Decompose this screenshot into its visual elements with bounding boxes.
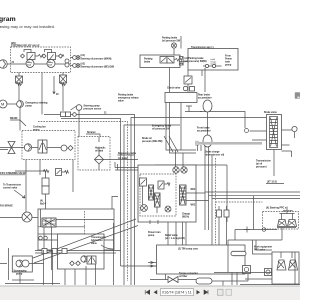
svg-text:R.H BRAKE: R.H BRAKE [0,205,13,208]
check valve circle on top [183,86,187,90]
pilot PPC dashed box [263,212,299,230]
plus mark component [244,227,250,233]
svg-text:Steering oil pressure (MAIN): Steering oil pressure (MAIN) [81,57,112,60]
svg-text:(xx = x.xx kg/cm2): (xx = x.xx kg/cm2) [165,238,185,240]
solenoid SV1 [173,167,179,173]
valve V12 below fan box [56,169,62,176]
relief valve pair right [217,210,222,217]
sensor S1 steering pump pressure sensor [76,105,82,111]
svg-text:Torque converter: Torque converter [179,272,198,275]
svg-text:Rear brake: Rear brake [198,95,211,97]
svg-text:valve: valve [118,101,124,103]
toolbar first page button [145,290,150,294]
wire steering line [0,217,42,219]
check CV6 diamond [68,146,73,151]
svg-text:pressure sensor: pressure sensor [84,109,102,111]
wire drop x63 [62,73,64,76]
wire transmission drop [188,70,202,76]
dashed drain vertical [84,211,86,234]
funnel symbol [185,106,202,112]
svg-text:Work equipment: Work equipment [254,246,272,249]
dark valve component [179,57,183,66]
spool stack left [149,185,154,200]
svg-text:W02: W02 [191,189,196,191]
solenoid SV2 [181,167,187,173]
svg-text:oil filter: oil filter [179,275,187,278]
wire diagonal to scavenging 1 [33,219,136,258]
toolbar background [0,287,300,300]
svg-text:From: From [225,56,231,58]
svg-text:(A) Parking brake: (A) Parking brake [185,57,205,60]
wire main pressure line [0,63,71,65]
wire diagonal to scavenging 2 [34,226,138,264]
svg-text:pressure (BELOW): pressure (BELOW) [142,141,163,143]
wire demand box step line [73,160,118,209]
svg-text:(oil pressure) SW(B): (oil pressure) SW(B) [185,61,207,63]
spring valve left [140,178,147,186]
wire extra bus left [61,119,157,267]
valve V3 pilot reducing [16,76,23,83]
svg-text:(A2): (A2) [81,62,86,65]
svg-text:Cooling fan: Cooling fan [33,127,46,129]
port circle A1 [65,59,69,63]
spool V9 dark stack [155,193,161,207]
test port T2 [73,64,77,68]
svg-text:accumulator: accumulator [198,97,212,100]
toolbar page field [161,289,194,296]
toolbar divider [0,286,300,287]
wire brake valve left ports [250,131,267,140]
svg-text:Emergency brake: Emergency brake [152,126,172,128]
svg-text:Strainer: Strainer [87,131,96,134]
wire to rear brake box [188,68,205,92]
pump P4 scavenging [16,260,23,267]
svg-text:(at oil: (at oil [256,163,262,166]
svg-text:train: train [225,61,231,64]
svg-text:P.P.C STEERING VALVE: P.P.C STEERING VALVE [0,172,26,175]
wire AC1 to AC2 [207,112,209,135]
svg-text:awing may or may not installed: awing may or may not installed. [0,24,55,29]
svg-text:(X) Steering PPC oil: (X) Steering PPC oil [266,207,288,210]
small gray icon right [295,92,300,99]
svg-text:(W1%): (W1%) [182,217,189,219]
capsule filter symbol [196,278,212,284]
orbitrol rotor dark cluster [42,218,56,227]
svg-text:accumulator: accumulator [197,130,211,133]
toolbar icon 2 [226,289,232,295]
wire right bus 3 [212,155,300,245]
svg-text:Brake oil: Brake oil [142,138,152,140]
wire arrows into TM case [148,261,157,267]
node circle on feed [245,129,249,133]
svg-text:Front brake: Front brake [197,127,210,130]
svg-text:pump: pump [26,105,33,107]
pump P1 steering pump [0,60,7,68]
relief valve RV2 [48,53,56,60]
manifold spools row [59,236,65,244]
wire bottom right runs [214,252,300,285]
check block square [243,266,251,274]
PPC valve element 1 [278,220,287,227]
valve X1 on line [168,277,178,283]
wire pair from rear brake box [166,103,196,154]
svg-text:pressure): pressure) [256,167,267,169]
scavenging pump block [12,256,32,272]
wire sensor drop [71,106,80,137]
svg-text:DRAIN: DRAIN [10,117,18,120]
svg-text:emergency release: emergency release [118,98,139,100]
transmission control valve main box [138,165,196,222]
wire continue [166,274,249,286]
solenoid SV3 [140,180,146,186]
svg-text:Parking brake: Parking brake [162,38,178,40]
steering relief valve assembly (dashed enclosure) [11,47,71,73]
thick hose line [196,142,262,145]
wire TM bottom line [150,279,196,281]
relief valve RV1 [27,53,35,60]
svg-text:Brake charge: Brake charge [205,152,220,154]
wire to test ports [71,58,75,66]
svg-text:Hydraulic: Hydraulic [95,148,106,150]
valve V10 [42,178,49,186]
pump P3 fan pump [24,144,31,151]
svg-text:Parking: Parking [144,59,153,61]
svg-text:Parking brake: Parking brake [118,95,134,97]
junction circle after filters [73,113,77,117]
pump P5 torque converter charge [81,256,87,262]
brake pedal [292,126,297,131]
svg-text:Check valve: Check valve [167,88,181,90]
underline PPC steering valve [0,174,25,176]
wire scavenging connections [0,248,60,285]
node small circle [262,228,266,232]
motor M emergency [0,100,7,108]
svg-text:pump: pump [16,274,23,276]
wire motor to pump [7,103,17,105]
wire from gauge B4 down [174,36,181,55]
toolbar prev button [154,290,158,294]
wire TM to work box [245,278,272,280]
svg-text:LH brake: LH brake [118,158,129,160]
accumulator AC1 [203,100,212,112]
lubrication valve box [58,234,105,269]
svg-text:Steering pump: Steering pump [84,105,101,108]
svg-text:oil pressure SW: oil pressure SW [152,129,170,131]
svg-text:(2) T/M sump case: (2) T/M sump case [178,249,199,251]
work equipment PPC box [272,252,299,284]
svg-text:Charge: Charge [182,214,191,216]
wire bus L5 [200,112,245,129]
svg-text:016/74 (1874 ) 11: 016/74 (1874 ) 11 [162,291,192,295]
svg-text:/cm2: /cm2 [48,64,52,66]
toolbar icon 1 [218,289,224,295]
priority valve group (dashed) [140,174,176,216]
svg-text:Brake valve: Brake valve [264,112,277,114]
wire tank to valve feeds [115,162,138,170]
gauge B4 parking brake pressure [171,43,176,48]
TM case box [157,245,246,274]
wire bus L4 [124,125,180,285]
wire bottom drops [65,264,96,285]
cooling fan circuit block (dashed) [22,131,75,160]
wire spool to bus [186,193,209,201]
filter F1 strainer diamond [95,155,104,164]
wire x63 to manifold [62,83,64,111]
accumulator AC2 [203,135,212,147]
check diamonds in lube box [70,261,75,266]
svg-text:Relief valve: Relief valve [165,235,178,237]
main spool stack [180,185,187,205]
test port T1 [73,56,77,60]
transmission control valve upper edge [155,165,227,222]
svg-text:Steering oil pressure (BELOW): Steering oil pressure (BELOW) [81,66,115,69]
svg-text:Transmission: Transmission [256,161,271,163]
parking brake valve box [140,55,180,68]
pilot gauge G1 [26,60,34,68]
svg-text:(oil pressure SW: (oil pressure SW [162,41,181,43]
svg-text:Ba14: Ba14 [40,203,46,206]
PPC valve element 2 [288,220,297,227]
check CV5 [61,145,67,151]
valve V8 [158,181,164,189]
svg-text:M: M [1,102,4,107]
rear brake degassing box [165,93,197,103]
wire parking valve drop [169,68,171,93]
PPC spool B [289,260,298,270]
wire fan shaft [0,148,24,150]
svg-text:(A1): (A1) [81,54,86,57]
wire fan block drops [26,160,40,218]
wire diagonal feeds [164,136,178,152]
check valve CV1 [21,54,25,58]
wire PPC box stubs [253,240,293,258]
wire orbitrol outputs [38,220,114,271]
svg-text:Power train: Power train [148,231,161,234]
pump P2 emergency steering pump [17,101,24,108]
PPC spool A [277,260,286,270]
svg-text:(4): (4) [40,200,43,203]
wire box bottom drops [150,220,186,245]
wire bus L2 [131,118,267,286]
hydraulic tank (dashed) [78,137,110,171]
wire PPC collector [228,196,282,273]
check valve CV2 [42,54,46,58]
wire bus L3 dashed [38,122,128,282]
pilot gauge G2 [47,60,55,68]
check circles row [39,236,43,240]
check valves inside [205,64,208,67]
fan blades [8,142,15,154]
wire pump down to fan block [19,107,21,130]
svg-text:Transmission app l y: Transmission app l y [191,47,214,49]
valve V7 on line [184,76,192,84]
steering orbitrol unit box [38,209,114,250]
wire right bus 4 dashed [216,158,263,245]
inline check row on transfer lines [42,249,47,254]
wire bus L1 with inline filters [44,115,135,286]
wire left link [15,170,46,172]
svg-text:/cm2: /cm2 [27,64,31,66]
svg-text:brake: brake [144,62,151,64]
check valve CV3 [59,54,63,58]
solenoid SV4 [141,205,148,212]
brake valve stack [267,115,282,150]
svg-text:gram: gram [0,16,16,23]
svg-text:To Transmission: To Transmission [3,185,22,187]
toolbar next button [197,290,201,294]
svg-text:oil tank: oil tank [95,150,104,153]
wire x19 down to pump [18,83,20,101]
svg-text:(transmission oil): (transmission oil) [205,154,224,157]
wire brake valve bottom drop [273,150,275,177]
valve V5 fan control [38,140,43,153]
check block square B [265,269,272,276]
wire mid drop x54 [53,76,55,94]
svg-text:motor: motor [33,128,40,131]
wire drop x42 [41,73,43,115]
toolbar last page button [204,290,208,294]
hose stub drops [198,145,202,151]
wire right bus 2 [209,147,301,230]
horizontal capsule [231,251,246,255]
svg-text:Emergency steering: Emergency steering [26,102,49,105]
PPC tee feed [277,209,296,228]
wire right bus 1 [205,146,300,230]
port circle A2 [65,63,69,67]
svg-text:W02: W02 [191,205,196,207]
svg-text:valve: valve [91,243,97,245]
transmission apply box [188,49,238,71]
wire transfer lines [35,223,121,285]
svg-text:pump: pump [148,235,155,237]
inline filter row [61,112,66,117]
svg-text:control valve: control valve [3,187,18,190]
svg-text:pump: pump [225,65,232,67]
valve spools in parking box [160,57,167,64]
valve V11 [87,256,92,264]
gauge G3 [165,206,171,212]
steering wheel symbol [22,212,32,222]
wire drop x19 [18,73,20,77]
valve V4 [60,75,67,83]
svg-text:Power: Power [225,59,232,61]
pump P4b second element [22,260,29,267]
